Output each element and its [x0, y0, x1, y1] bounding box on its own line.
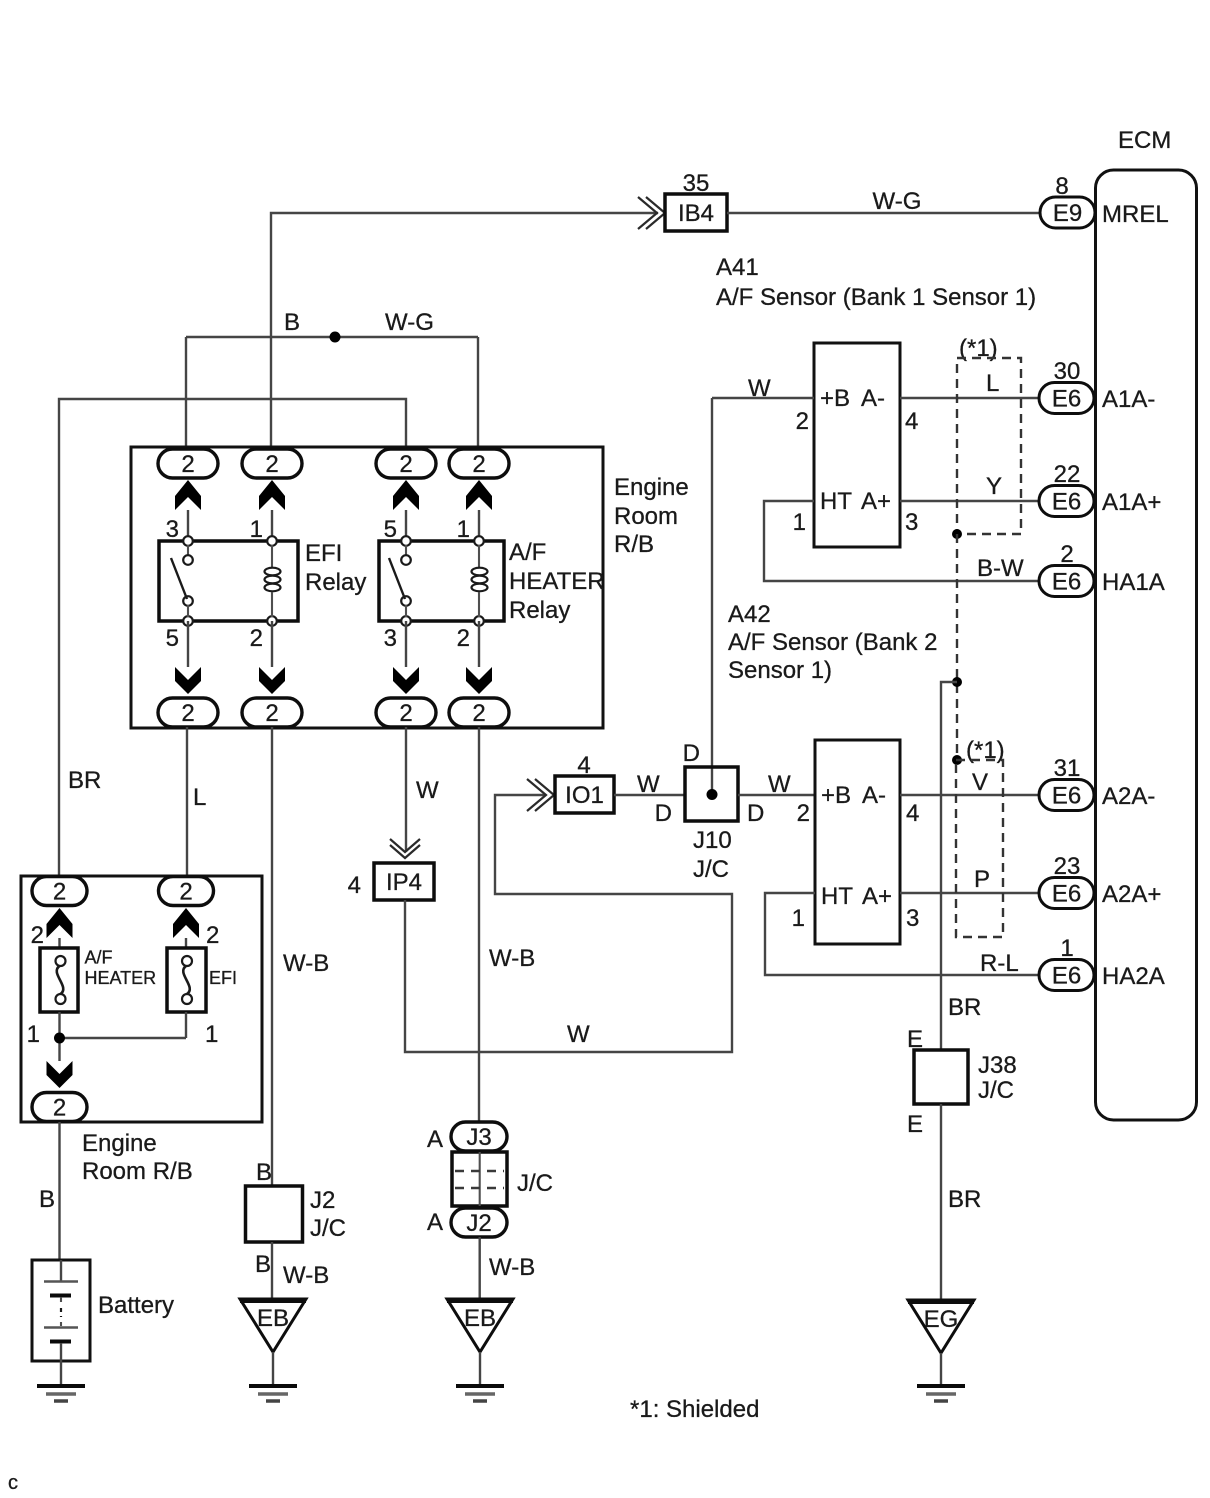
- svg-text:V: V: [972, 769, 988, 796]
- wire stub bottom pin 5: [187, 621, 189, 667]
- svg-text:E6: E6: [1052, 569, 1081, 596]
- svg-text:+B: +B: [821, 782, 851, 809]
- battery label: [98, 1292, 174, 1319]
- EFI relay box: [159, 541, 298, 621]
- svg-text:J2: J2: [310, 1187, 335, 1214]
- pin number 3: [166, 516, 179, 543]
- wire W-B EFI relay to J2: [271, 727, 273, 1186]
- pin 2 label: [1060, 541, 1073, 568]
- svg-text:23: 23: [1054, 853, 1081, 880]
- wire W IO1 to J10: [614, 794, 685, 796]
- connector E6 pin 22: [1039, 486, 1094, 517]
- label B battery wire: [39, 1186, 55, 1213]
- svg-text:W: W: [567, 1021, 590, 1048]
- label L: [193, 784, 206, 811]
- J10 junction dot: [707, 789, 718, 800]
- wire A42 A- to E6: [900, 794, 1042, 796]
- svg-text:22: 22: [1054, 461, 1081, 488]
- svg-text:2: 2: [53, 1095, 66, 1122]
- label V wire: [972, 769, 988, 796]
- svg-text:2: 2: [181, 451, 194, 478]
- svg-text:R/B: R/B: [614, 531, 654, 558]
- svg-text:A+: A+: [861, 488, 891, 515]
- wire J2 to EB ground: [271, 1242, 273, 1299]
- wire EB2 stem: [479, 1352, 481, 1386]
- EFI relay coil: [265, 545, 281, 617]
- svg-text:2: 2: [797, 800, 810, 827]
- shield drain wire: [941, 682, 957, 1050]
- relay block bottom cavity connector 4 (2): [449, 698, 509, 727]
- J38 J/C box: [914, 1050, 968, 1104]
- pin number bottom 5: [166, 625, 179, 652]
- svg-text:2: 2: [457, 625, 470, 652]
- ground EB 2: [447, 1299, 513, 1352]
- battery ground: [37, 1386, 85, 1401]
- connector J3: [451, 1122, 507, 1151]
- svg-text:W-G: W-G: [873, 188, 922, 215]
- Engine Room R/B lower label: [82, 1130, 193, 1185]
- pin 31 label: [1054, 755, 1081, 782]
- svg-text:8: 8: [1055, 173, 1068, 200]
- pin 4 A41: [905, 408, 918, 435]
- EFI fuse box: [167, 948, 206, 1012]
- wire B/W-G horizontal: [186, 336, 478, 338]
- svg-text:J/C: J/C: [310, 1215, 346, 1242]
- junction block IO1: [555, 776, 614, 813]
- svg-text:B: B: [284, 309, 300, 336]
- svg-text:EFI: EFI: [209, 968, 237, 988]
- relay block top arrow 4: [466, 480, 492, 510]
- svg-text:B: B: [255, 1251, 271, 1278]
- label W-B below J2: [283, 1262, 329, 1289]
- svg-text:J3: J3: [466, 1124, 491, 1151]
- wire W-G from EFI relay coil to IB4 connector: [271, 213, 658, 449]
- svg-text:2: 2: [796, 408, 809, 435]
- page letter c: [8, 1472, 18, 1494]
- svg-text:3: 3: [166, 516, 179, 543]
- svg-text:W-G: W-G: [385, 309, 434, 336]
- svg-text:5: 5: [384, 516, 397, 543]
- J10 J/C box: [685, 767, 738, 821]
- A/F relay switch: [389, 545, 411, 617]
- svg-text:Relay: Relay: [305, 569, 366, 596]
- svg-text:A-: A-: [862, 782, 886, 809]
- svg-text:E6: E6: [1052, 489, 1081, 516]
- EB1 ground hash: [249, 1386, 297, 1401]
- svg-text:W: W: [637, 771, 660, 798]
- pin number bottom 2: [457, 625, 470, 652]
- fuse block bottom connector (2): [32, 1093, 87, 1122]
- shield box A42: [956, 760, 1003, 937]
- pin 1 A41: [793, 509, 806, 536]
- svg-text:A: A: [427, 1209, 443, 1236]
- svg-text:BR: BR: [68, 767, 101, 794]
- Engine Room R/B label: [614, 474, 689, 558]
- shield box A41: [957, 358, 1021, 534]
- svg-text:IP4: IP4: [386, 869, 422, 896]
- svg-text:2: 2: [31, 922, 44, 949]
- label W: [416, 777, 439, 804]
- svg-text:2: 2: [53, 879, 66, 906]
- svg-text:Relay: Relay: [509, 597, 570, 624]
- ECM label: [1118, 127, 1171, 154]
- shield junction dot A41: [952, 529, 962, 539]
- pin 4 label IP4: [348, 872, 361, 899]
- pin 1 label: [1060, 935, 1073, 962]
- svg-text:A+: A+: [862, 883, 892, 910]
- pin 1 label right: [205, 1021, 218, 1048]
- J2 label: [310, 1187, 346, 1242]
- label D above J10: [683, 740, 700, 767]
- wire A42 A+ to E6: [900, 892, 1042, 894]
- pin 1 A42: [792, 905, 805, 932]
- label W-B left: [283, 950, 329, 977]
- chevron into IO1: [527, 779, 554, 811]
- svg-text:A1A+: A1A+: [1102, 489, 1161, 516]
- relay block bottom arrow 1: [175, 667, 201, 694]
- svg-text:EB: EB: [464, 1305, 496, 1332]
- wire W to IP4: [405, 727, 407, 852]
- svg-text:A42: A42: [728, 601, 771, 628]
- pin 2 label right: [206, 922, 219, 949]
- label BR: [68, 767, 101, 794]
- svg-text:1: 1: [250, 516, 263, 543]
- label Y wire: [986, 473, 1002, 500]
- relay block bottom arrow 3: [393, 667, 419, 694]
- ECM pin A2A+ label: [1102, 881, 1161, 908]
- pin 4 A42: [906, 800, 919, 827]
- pin 3 A42: [906, 905, 919, 932]
- relay block top arrow 2: [259, 480, 285, 510]
- ECM pin A1A- label: [1102, 386, 1155, 413]
- svg-text:Y: Y: [986, 473, 1002, 500]
- svg-text:35: 35: [683, 170, 710, 197]
- shielded footnote: [630, 1396, 759, 1423]
- svg-text:J2: J2: [466, 1210, 491, 1237]
- ECM pin A2A- label: [1102, 783, 1155, 810]
- wire battery to ground: [60, 1361, 62, 1386]
- svg-text:2: 2: [1060, 541, 1073, 568]
- Engine Room R/B relay block box: [131, 447, 603, 728]
- svg-text:2: 2: [181, 700, 194, 727]
- wire B to EFI relay pin 3: [185, 337, 187, 449]
- svg-text:A: A: [427, 1126, 443, 1153]
- svg-text:1: 1: [27, 1021, 40, 1048]
- label W after J10: [768, 771, 791, 798]
- wire L EFI relay to fuse block: [186, 727, 188, 877]
- svg-text:3: 3: [384, 625, 397, 652]
- J38 label: [978, 1052, 1017, 1104]
- EG ground hash: [917, 1386, 965, 1401]
- svg-text:+B: +B: [820, 385, 850, 412]
- wire stub bottom pin 2: [271, 621, 273, 667]
- A41 terminal labels: [820, 385, 891, 515]
- svg-text:HA2A: HA2A: [1102, 963, 1165, 990]
- splice junction dot: [330, 332, 341, 343]
- label W route: [567, 1021, 590, 1048]
- svg-text:HEATER: HEATER: [509, 568, 605, 595]
- label B below J2: [255, 1251, 271, 1278]
- ECM pin A1A+ label: [1102, 489, 1161, 516]
- svg-text:MREL: MREL: [1102, 201, 1169, 228]
- connector E6 pin 31: [1039, 780, 1094, 811]
- svg-text:4: 4: [905, 408, 918, 435]
- relay block bottom cavity connector 3 (2): [376, 698, 436, 727]
- wire EB1 stem: [272, 1352, 274, 1386]
- svg-text:2: 2: [265, 451, 278, 478]
- svg-text:1: 1: [793, 509, 806, 536]
- pin 3 A41: [905, 509, 918, 536]
- wire J2 to EB2: [479, 1237, 481, 1299]
- wire A41 A+ to E6: [900, 500, 1042, 502]
- pin number bottom 2: [250, 625, 263, 652]
- svg-text:1: 1: [457, 516, 470, 543]
- svg-text:D: D: [747, 800, 764, 827]
- svg-text:E6: E6: [1052, 783, 1081, 810]
- pin 23 label: [1054, 853, 1081, 880]
- svg-text:Battery: Battery: [98, 1292, 174, 1319]
- svg-text:W: W: [416, 777, 439, 804]
- svg-text:Sensor 1): Sensor 1): [728, 657, 832, 684]
- svg-text:ECM: ECM: [1118, 127, 1171, 154]
- label (*1) A41: [959, 335, 998, 362]
- svg-text:A1A-: A1A-: [1102, 386, 1155, 413]
- wire stub bottom pin 2: [478, 621, 480, 667]
- svg-text:W: W: [748, 375, 771, 402]
- pin number bottom 3: [384, 625, 397, 652]
- label (*1) A42: [966, 737, 1005, 764]
- wire to A/F HEATER fuse: [58, 938, 60, 948]
- EFI relay label: [305, 540, 366, 596]
- wire stub pin 1: [271, 510, 273, 541]
- A42 designation label: [728, 601, 937, 684]
- svg-text:J/C: J/C: [517, 1170, 553, 1197]
- svg-text:B: B: [39, 1186, 55, 1213]
- chevron into IP4: [390, 839, 420, 858]
- EFI relay pin circles: [183, 536, 277, 626]
- svg-text:Room R/B: Room R/B: [82, 1158, 193, 1185]
- J3-J2 J/C box: [452, 1152, 507, 1206]
- label R-L wire: [980, 950, 1019, 977]
- label D right of J10: [747, 800, 764, 827]
- pin 22 label: [1054, 461, 1081, 488]
- relay block top cavity connector 2 (2): [242, 449, 302, 478]
- A42 sensor box: [815, 740, 900, 944]
- label A J3: [427, 1126, 443, 1153]
- ECM pin HA2A label: [1102, 963, 1165, 990]
- svg-text:J/C: J/C: [978, 1077, 1014, 1104]
- svg-text:BR: BR: [948, 994, 981, 1021]
- svg-text:2: 2: [399, 700, 412, 727]
- svg-text:W-B: W-B: [283, 1262, 329, 1289]
- wire BR J38 to EG: [940, 1104, 942, 1300]
- A/F HEATER fuse label: [85, 948, 157, 989]
- svg-text:L: L: [193, 784, 206, 811]
- svg-text:B: B: [256, 1159, 272, 1186]
- relay block top cavity connector 3 (2): [376, 449, 436, 478]
- pin 1 label left: [27, 1021, 40, 1048]
- svg-text:IB4: IB4: [678, 200, 714, 227]
- pin number 1: [457, 516, 470, 543]
- pin 8 label: [1055, 173, 1068, 200]
- wire D from A41 +B down to J10: [711, 398, 713, 794]
- svg-text:HT: HT: [821, 883, 853, 910]
- battery box: [32, 1260, 90, 1361]
- label D left of J10: [655, 800, 672, 827]
- wire A41 HT: [764, 501, 1042, 581]
- wire B fuse block to battery: [58, 1122, 60, 1260]
- svg-text:2: 2: [472, 700, 485, 727]
- fuse block top connector right (2): [159, 877, 214, 906]
- A/F HEATER relay label: [509, 539, 605, 624]
- A/F HEATER relay box: [379, 541, 504, 621]
- pin 2 A41: [796, 408, 809, 435]
- A41 designation label: [716, 254, 1036, 311]
- label W-B mid: [489, 945, 535, 972]
- wire stub bottom pin 3: [405, 621, 407, 667]
- connector E9 (MREL): [1040, 197, 1095, 228]
- svg-text:Engine: Engine: [82, 1130, 157, 1157]
- relay block top cavity connector 1 (2): [158, 449, 218, 478]
- svg-text:D: D: [655, 800, 672, 827]
- label W-G 2: [385, 309, 434, 336]
- pin 4 label IO1: [577, 752, 590, 779]
- svg-text:R-L: R-L: [980, 950, 1019, 977]
- svg-text:A/F: A/F: [509, 539, 546, 566]
- label L wire: [986, 370, 999, 397]
- svg-text:HA1A: HA1A: [1102, 569, 1165, 596]
- svg-text:W-B: W-B: [283, 950, 329, 977]
- svg-text:2: 2: [179, 879, 192, 906]
- svg-text:A2A+: A2A+: [1102, 881, 1161, 908]
- Engine Room R/B fuse block box: [21, 876, 262, 1122]
- svg-text:1: 1: [792, 905, 805, 932]
- svg-text:W-B: W-B: [489, 945, 535, 972]
- svg-text:A/F: A/F: [85, 948, 113, 968]
- ECM pin HA1A label: [1102, 569, 1165, 596]
- label B above J2: [256, 1159, 272, 1186]
- wire stub pin 1: [478, 510, 480, 541]
- relay block top arrow 3: [393, 480, 419, 510]
- connector E6 pin 1: [1039, 960, 1094, 991]
- svg-text:1: 1: [205, 1021, 218, 1048]
- relay block top cavity connector 4 (2): [449, 449, 509, 478]
- svg-text:J/C: J/C: [693, 856, 729, 883]
- wire W route from IP4 to IO1: [405, 795, 732, 1052]
- svg-text:BR: BR: [948, 1186, 981, 1213]
- ECM module outline: [1096, 170, 1197, 1120]
- wire W J10 to A42: [738, 794, 815, 796]
- svg-text:2: 2: [206, 922, 219, 949]
- label W-G: [873, 188, 922, 215]
- wire stub pin 5: [405, 510, 407, 541]
- fuse block arrow left: [47, 908, 73, 938]
- wire BR horizontal: [59, 399, 406, 877]
- relay block top arrow 1: [175, 480, 201, 510]
- svg-text:A-: A-: [861, 385, 885, 412]
- relay block bottom cavity connector 2 (2): [242, 698, 302, 727]
- junction block IP4: [374, 863, 434, 900]
- svg-text:E6: E6: [1052, 881, 1081, 908]
- pin 35 label: [683, 170, 710, 197]
- wire W-G from IB4 to ECM E9: [727, 212, 1040, 214]
- label W at A41: [748, 375, 771, 402]
- wire W-G to A/F heater relay pin 1: [477, 337, 479, 449]
- relay block bottom cavity connector 1 (2): [158, 698, 218, 727]
- svg-text:A/F Sensor (Bank 1 Sensor 1): A/F Sensor (Bank 1 Sensor 1): [716, 284, 1036, 311]
- svg-text:31: 31: [1054, 755, 1081, 782]
- svg-text:W-B: W-B: [489, 1254, 535, 1281]
- junction block IB4: [665, 194, 727, 231]
- svg-text:E9: E9: [1053, 200, 1082, 227]
- svg-text:A/F Sensor (Bank 2: A/F Sensor (Bank 2: [728, 629, 937, 656]
- connector E6 pin 30: [1039, 383, 1094, 414]
- wire W-B A/F relay to J3: [478, 727, 480, 1122]
- svg-text:2: 2: [265, 700, 278, 727]
- svg-text:B-W: B-W: [977, 555, 1024, 582]
- label BR above J38: [948, 994, 981, 1021]
- label E below J38: [907, 1111, 923, 1138]
- wire A41 A- to E6: [900, 397, 1042, 399]
- pin 2 label left: [31, 922, 44, 949]
- relay block bottom arrow 2: [259, 667, 285, 694]
- J10 label: [693, 827, 732, 883]
- svg-text:EG: EG: [924, 1306, 959, 1333]
- fuse block top connector left (2): [32, 877, 87, 906]
- EFI fuse label: [209, 968, 237, 988]
- ground EG: [908, 1300, 974, 1353]
- connector J2 lower: [451, 1208, 507, 1237]
- shield box A42 top dot: [952, 755, 962, 765]
- svg-text:*1: Shielded: *1: Shielded: [630, 1396, 759, 1423]
- fuse block bottom arrow: [47, 1061, 73, 1088]
- svg-text:HEATER: HEATER: [85, 968, 157, 988]
- svg-text:D: D: [683, 740, 700, 767]
- battery cells: [44, 1260, 78, 1361]
- shield drain junction dot: [952, 677, 962, 687]
- svg-text:3: 3: [906, 905, 919, 932]
- svg-text:EFI: EFI: [305, 540, 342, 567]
- svg-text:3: 3: [905, 509, 918, 536]
- svg-text:4: 4: [348, 872, 361, 899]
- pin number 1: [250, 516, 263, 543]
- svg-text:4: 4: [577, 752, 590, 779]
- EFI relay switch: [171, 545, 193, 617]
- relay block bottom arrow 4: [466, 667, 492, 694]
- A/F HEATER fuse box: [40, 948, 78, 1012]
- label B: [284, 309, 300, 336]
- connector E6 pin 23: [1039, 878, 1094, 909]
- connector E6 pin 2: [1039, 566, 1094, 597]
- label E above J38: [907, 1026, 923, 1053]
- svg-text:A2A-: A2A-: [1102, 783, 1155, 810]
- svg-text:Room: Room: [614, 503, 678, 530]
- label A J2: [427, 1209, 443, 1236]
- A41 sensor box: [814, 343, 900, 547]
- svg-text:J10: J10: [693, 827, 732, 854]
- label W-B to EB2: [489, 1254, 535, 1281]
- pin 2 A42: [797, 800, 810, 827]
- svg-text:IO1: IO1: [565, 782, 604, 809]
- svg-text:P: P: [974, 866, 990, 893]
- svg-text:EB: EB: [257, 1305, 289, 1332]
- svg-text:5: 5: [166, 625, 179, 652]
- svg-text:L: L: [986, 370, 999, 397]
- label BR to EG: [948, 1186, 981, 1213]
- connector chevron into IB4: [638, 197, 665, 229]
- svg-text:J38: J38: [978, 1052, 1017, 1079]
- svg-text:Engine: Engine: [614, 474, 689, 501]
